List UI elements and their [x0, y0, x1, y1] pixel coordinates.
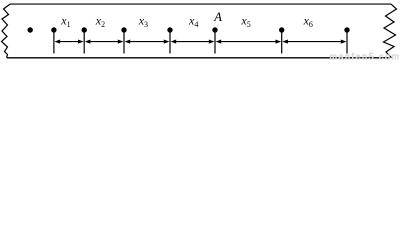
dot 0 (isolated leftmost point) — [28, 27, 33, 32]
dimension arrow x1 interval — [55, 40, 84, 44]
svg-text:x3: x3 — [138, 14, 148, 30]
tick (pin) under dot 4 — [169, 30, 171, 54]
top border line of paper-tape strip — [10, 3, 391, 5]
left torn-edge zigzag — [2, 4, 11, 58]
dimension arrow x4 interval — [171, 40, 215, 44]
svg-text:x6: x6 — [303, 14, 313, 30]
svg-text:x5: x5 — [240, 14, 250, 30]
tick (pin) under dot 1 — [53, 30, 55, 54]
dot 5 (point A) — [212, 27, 217, 32]
tick (pin) under dot 6 — [281, 30, 283, 54]
svg-text:x2: x2 — [95, 14, 105, 30]
dimension arrow x5 interval — [216, 40, 282, 44]
dot 6 — [279, 27, 284, 32]
dot 7 (rightmost) — [344, 27, 349, 32]
svg-text:x4: x4 — [188, 14, 198, 30]
svg-text:A: A — [213, 10, 222, 24]
dot 3 — [121, 27, 126, 32]
svg-text:manfen5.com: manfen5.com — [330, 51, 400, 61]
tick (pin) under dot 7 — [346, 30, 348, 54]
dimension arrow x3 interval — [125, 40, 170, 44]
tick (pin) under dot 5 — [214, 30, 216, 54]
dot 1 — [51, 27, 56, 32]
right torn-edge zigzag — [384, 4, 397, 58]
tick (pin) under dot 3 — [123, 30, 125, 54]
svg-text:x1: x1 — [60, 14, 70, 30]
tick (pin) under dot 2 — [83, 30, 85, 54]
dot 2 — [82, 27, 87, 32]
dimension arrow x2 interval — [85, 40, 124, 44]
dot 4 — [167, 27, 172, 32]
dimension arrow x6 interval — [282, 40, 346, 44]
bottom border line of paper-tape strip — [7, 57, 390, 59]
